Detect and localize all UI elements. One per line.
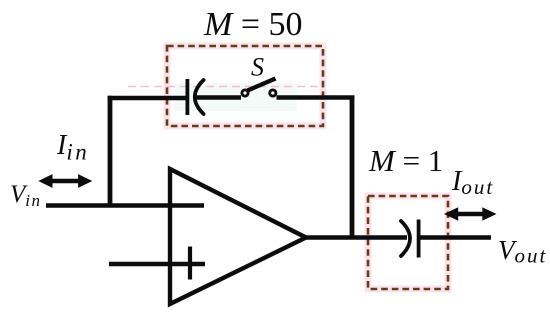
svg-text:Vin: Vin	[10, 181, 42, 210]
label Iout	[451, 166, 494, 199]
label Iin	[56, 130, 89, 165]
op-amp U1 triangle	[170, 169, 306, 304]
label M = 1	[368, 143, 443, 178]
switch S lever	[248, 79, 276, 91]
wire switch to right corner	[277, 95, 355, 99]
svg-text:Iin: Iin	[56, 130, 89, 165]
magenta guide dashed line	[128, 86, 324, 88]
wire capacitor C1 to switch	[194, 95, 241, 99]
dashed box M=50	[167, 46, 323, 126]
capacitor C1 flat plate	[185, 79, 189, 115]
wire feedback right vertical	[350, 96, 355, 238]
dashed box M=1	[368, 196, 448, 289]
svg-text:M = 1: M = 1	[368, 143, 443, 178]
highlight glow box M=50	[167, 46, 323, 126]
svg-text:M = 50: M = 50	[203, 6, 303, 43]
label S	[251, 53, 264, 82]
svg-text:Iout: Iout	[451, 166, 494, 199]
current arrow Iin (double headed)	[38, 174, 92, 188]
wire feedback top left segment	[108, 96, 187, 100]
highlight tint inside M=50 box	[175, 83, 297, 111]
capacitor C2 curved plate	[401, 221, 410, 256]
switch S right contact	[270, 90, 276, 96]
switch S left contact	[242, 90, 248, 96]
svg-text:S: S	[251, 53, 264, 82]
op-amp plus sign vertical bar	[188, 247, 192, 280]
wire Vin input to inverting input	[46, 203, 204, 208]
capacitor C2 flat plate	[417, 220, 421, 258]
wire capacitor C2 to Vout	[419, 235, 491, 240]
current arrow Iout (double headed)	[444, 207, 497, 221]
label M = 50	[203, 6, 303, 43]
highlight glow box M=1	[368, 196, 448, 289]
wire op-amp output to capacitor C2	[305, 235, 407, 240]
wire non-inverting input	[109, 262, 205, 267]
label Vout	[498, 235, 547, 268]
wire feedback left vertical	[108, 96, 113, 206]
label Vin	[10, 181, 42, 210]
capacitor C1 curved plate	[195, 80, 204, 114]
svg-text:Vout: Vout	[498, 235, 547, 268]
